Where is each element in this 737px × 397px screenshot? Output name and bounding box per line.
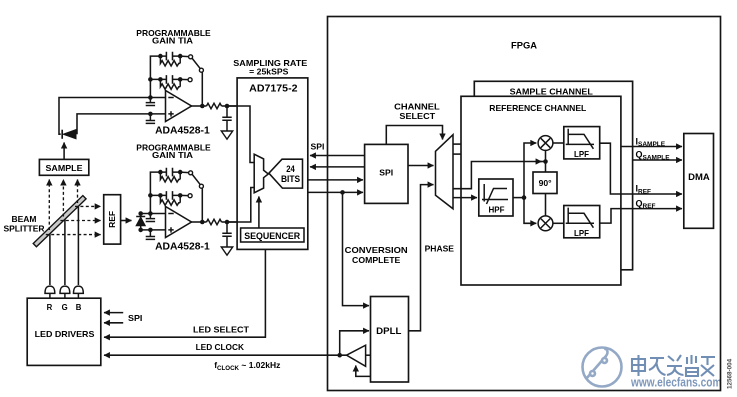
ADC 24 bits symbol [269, 159, 303, 188]
wire op2 plus input [141, 229, 166, 231]
dashed beam up 2 [62, 180, 64, 217]
svg-text:90°: 90° [539, 179, 552, 188]
svg-text:HPF: HPF [489, 206, 505, 215]
svg-text:B: B [76, 303, 82, 312]
wire LED CLOCK line [104, 354, 347, 356]
svg-text:LED CLOCK: LED CLOCK [196, 342, 245, 352]
svg-text:REF: REF [107, 211, 117, 228]
TIA2 input nodes [148, 211, 153, 216]
wire split up to multiplier 1 [524, 143, 536, 198]
LPF2 box [564, 206, 600, 238]
wire TIA1 output into ADC mux [227, 106, 254, 163]
REF box [104, 195, 121, 244]
wire PHASE into mux input 2 [409, 185, 434, 331]
svg-text:AD7175-2: AD7175-2 [249, 83, 298, 94]
svg-text:24: 24 [286, 164, 295, 174]
wire HPF output to split node [513, 197, 524, 199]
TIA1 branch1 resistor [160, 56, 180, 66]
TIA2 switch arm [192, 174, 200, 184]
TIA1 branch nodes [158, 54, 163, 59]
svg-text:LPF: LPF [574, 229, 589, 238]
TIA2 branch nodes [158, 170, 163, 175]
TIA1 switch contacts [180, 55, 188, 58]
wire channel select (SPI top to mux top) [386, 126, 442, 145]
svg-text:REFERENCE CHANNEL: REFERENCE CHANNEL [489, 104, 586, 113]
TIA2 switch pole wire [201, 188, 203, 222]
svg-text:SPLITTER: SPLITTER [3, 223, 44, 233]
wire op1 minus input [59, 98, 166, 135]
dashed beam right 1 [75, 205, 101, 207]
beam splitter bar [33, 196, 86, 247]
node reference split [543, 159, 548, 164]
SPI bus line 4 [308, 191, 363, 193]
TIA1 switch arm [192, 58, 200, 68]
wire mux to HPF [453, 197, 477, 199]
TIA1 output resistor [207, 103, 222, 108]
multiplier 2 [538, 216, 553, 231]
LED R [45, 286, 55, 298]
TIA2 branch2 capacitor [160, 191, 180, 200]
wire LPF2 to Q_REF [600, 209, 682, 224]
LED G [60, 286, 70, 298]
TIA1 output filter cap [222, 106, 231, 131]
svg-text:SPI: SPI [128, 314, 142, 323]
svg-text:SELECT: SELECT [399, 112, 435, 121]
wire ref node to multiplier 1 [545, 150, 547, 161]
wire split down to multiplier 2 [524, 198, 536, 224]
dashed beam up 3 [77, 180, 79, 204]
TIA2 ground [221, 247, 232, 255]
wire to ADC input 1 [222, 105, 238, 107]
wire SPI stub 1 to LED drivers [104, 312, 123, 314]
wire conversion complete (SPI to DPLL) [343, 192, 370, 305]
wire DPLL feedback to buffer enable [356, 366, 371, 377]
svg-text:SPI: SPI [379, 167, 393, 177]
HPF box [479, 179, 513, 216]
TIA1 ground [221, 131, 232, 139]
wire multiplier 2 to LPF2 [553, 222, 564, 224]
multiplier 1 [538, 136, 553, 151]
LPF1 curve icon [566, 129, 594, 149]
sequencer box [241, 228, 304, 242]
TIA2 branch2 resistor [160, 195, 180, 205]
FPGA box [328, 17, 721, 391]
wire op1 plus input [77, 114, 166, 134]
svg-text:12568-004: 12568-004 [727, 358, 734, 389]
svg-text:COMPLETE: COMPLETE [352, 255, 401, 265]
node HPF split [522, 195, 527, 200]
svg-text:BITS: BITS [281, 174, 300, 184]
svg-text:ADA4528-1: ADA4528-1 [155, 241, 210, 252]
wire multiplier 1 to LPF1 [553, 142, 564, 144]
photodiode D2 [136, 214, 145, 230]
node clock junction [337, 353, 342, 358]
svg-text:DPLL: DPLL [376, 326, 402, 336]
svg-text:LPF: LPF [574, 150, 589, 159]
wire LED B to beam splitter [77, 204, 79, 285]
watermark logo circle (elecfans) [583, 348, 622, 387]
wire Q_SAMPLE [633, 159, 682, 161]
arrow REF box to photodiode 2 [121, 220, 132, 222]
mux output stub 2 [453, 153, 462, 155]
mux output stub 1 [453, 143, 462, 145]
wire clock feedback into DPLL [340, 331, 369, 355]
SPI bus line 3 [308, 179, 363, 181]
svg-text:www.elecfans.com: www.elecfans.com [630, 375, 721, 390]
wire 90 deg to multiplier 2 [545, 194, 547, 216]
svg-text:SPI: SPI [311, 141, 325, 151]
node on SPI line 4 [340, 190, 345, 195]
wire ref node to 90 deg [545, 162, 547, 173]
op-amp U2 ADA4528-1 [166, 207, 192, 238]
svg-text:PHASE: PHASE [425, 244, 455, 253]
TIA1 branch2 resistor [160, 79, 180, 89]
wire I_SAMPLE [621, 146, 682, 148]
svg-text:LED SELECT: LED SELECT [193, 324, 250, 334]
TIA1 feedback bus [150, 56, 160, 97]
TIA2 output resistor [207, 219, 222, 224]
TIA1 minus bypass cap [146, 98, 155, 106]
wire TIA2 output into ADC mux [227, 188, 254, 223]
TIA2 feedback bus [150, 172, 160, 213]
LED B [74, 286, 84, 298]
wire LED SELECT line [104, 249, 265, 337]
wire op1 output [192, 105, 207, 107]
photodiode D1 [61, 130, 63, 139]
svg-text:DMA: DMA [688, 172, 710, 182]
dashed beam right 2 [60, 220, 100, 222]
svg-text:CONVERSION: CONVERSION [345, 245, 408, 255]
clock buffer triangle [347, 345, 366, 366]
svg-text:GAIN TIA: GAIN TIA [152, 36, 193, 46]
TIA2 branch1 capacitor [160, 168, 180, 177]
svg-text:GAIN TIA: GAIN TIA [152, 150, 193, 160]
wire LED R to beam splitter [49, 231, 51, 285]
LPF2 curve icon [566, 208, 594, 228]
op-amp U1 ADA4528-1 [166, 91, 192, 122]
TIA1 branch2 capacitor [160, 75, 180, 84]
svg-text:SEQUENCER: SEQUENCER [244, 231, 300, 241]
wire op2 output [192, 221, 207, 223]
TIA2 plus bypass cap [146, 230, 155, 240]
TIA2 branch1 resistor [160, 172, 180, 182]
svg-text:CHANNEL: CHANNEL [394, 103, 440, 112]
wire DPLL to buffer [366, 354, 371, 356]
TIA1 branch1 capacitor [160, 52, 180, 61]
SPI box (FPGA) [365, 144, 408, 203]
dashed beam right 3 [46, 234, 101, 236]
LPF1 box [564, 127, 600, 159]
svg-text:FPGA: FPGA [511, 40, 537, 50]
TIA1 switch pole wire [201, 72, 203, 106]
dashed beam up 1 [48, 180, 50, 231]
ADC input mux [254, 154, 268, 193]
LED DRIVERS box [27, 298, 101, 365]
wire LED G to beam splitter [64, 217, 66, 285]
TIA2 switch contacts [180, 171, 188, 174]
svg-text:LED DRIVERS: LED DRIVERS [35, 329, 95, 339]
HPF curve icon [482, 184, 508, 204]
wire sequencer to mux [258, 197, 260, 229]
wire SPI to mux input 1 [408, 165, 434, 167]
DMA box [684, 134, 714, 229]
wire to ADC input 2 [222, 221, 238, 223]
svg-text:ADA4528-1: ADA4528-1 [155, 125, 210, 136]
SPI bus line 2 [310, 166, 365, 168]
wire LPF1 to I_REF [600, 143, 682, 194]
90 degree box [533, 172, 557, 194]
AD7175-2 box [237, 78, 308, 250]
svg-text:SAMPLE: SAMPLE [46, 163, 83, 173]
svg-text:= 25kSPS: = 25kSPS [249, 67, 289, 77]
SPI bus line 1 [310, 155, 365, 157]
TIA2 minus bypass cap [146, 214, 155, 222]
DPLL box [371, 297, 409, 383]
reference channel box [461, 96, 621, 285]
TIA1 input nodes [148, 95, 153, 100]
SAMPLE box [39, 159, 88, 175]
channel select mux [436, 135, 454, 209]
wire op2 minus input [141, 213, 166, 215]
wire SPI stub 2 to LED drivers [104, 322, 123, 324]
sample channel box [474, 81, 632, 269]
TIA2 output filter cap [222, 222, 231, 247]
arrow sample box to photodiode 1 [63, 143, 65, 160]
watermark CJK text (glyph approximation) [632, 355, 715, 376]
wire mux to reference line [453, 162, 542, 189]
svg-text:SAMPLE CHANNEL: SAMPLE CHANNEL [510, 87, 593, 96]
svg-text:R: R [47, 303, 53, 312]
svg-text:G: G [62, 303, 68, 312]
TIA1 plus bypass cap [146, 114, 155, 124]
